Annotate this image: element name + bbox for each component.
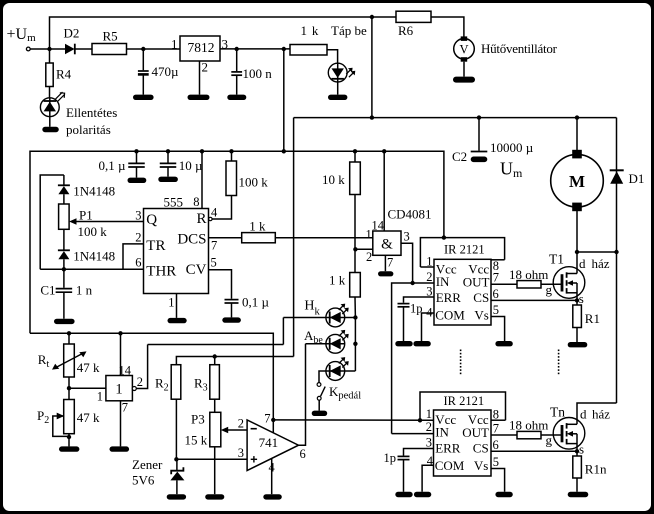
- svg-text:4: 4: [211, 206, 218, 220]
- capacitor 470u: [138, 49, 179, 95]
- ground zener: [167, 494, 186, 499]
- svg-text:2: 2: [366, 250, 372, 264]
- wire motor top: [576, 118, 578, 150]
- svg-text:CS: CS: [473, 290, 489, 305]
- diode D2: [64, 26, 80, 55]
- junction rail 0.1u: [134, 149, 138, 153]
- wire top rail +Um: [50, 17, 372, 49]
- svg-text:P1: P1: [79, 208, 93, 223]
- capacitor 0.1u CV: [225, 295, 270, 318]
- junction C2 node: [477, 115, 481, 119]
- svg-text:3: 3: [426, 285, 432, 299]
- svg-text:R1n: R1n: [585, 462, 607, 477]
- capacitor C2 10000u: [452, 118, 534, 180]
- svg-text:15 k: 15 k: [185, 433, 208, 448]
- ground Vs stage2: [495, 492, 512, 497]
- fan motor Hutoventillator: [454, 36, 558, 61]
- dotted continuation right: [558, 350, 560, 375]
- svg-text:3: 3: [404, 230, 410, 244]
- svg-text:7: 7: [211, 239, 217, 253]
- svg-text:4: 4: [427, 454, 434, 468]
- wire Vcc feed down to 555 rail: [283, 49, 285, 151]
- svg-text:s: s: [579, 291, 584, 306]
- pin 6 741 output: [299, 344, 306, 461]
- capacitor 1p stage2: [384, 451, 410, 492]
- transistor Tn mosfet: [550, 405, 610, 457]
- svg-text:THR: THR: [146, 264, 176, 280]
- svg-text:C1: C1: [40, 283, 55, 298]
- junction one-gate pin14 top: [118, 331, 122, 335]
- svg-text:IR 2121: IR 2121: [444, 243, 485, 257]
- svg-text:g: g: [546, 433, 553, 448]
- svg-text:1: 1: [426, 255, 432, 269]
- pin 7 555 DCS: [209, 238, 242, 253]
- svg-text:Tn: Tn: [550, 405, 565, 420]
- svg-text:47 k: 47 k: [77, 360, 100, 375]
- junction Vcc bus 2: [418, 418, 422, 422]
- wire node to inverter pin1: [69, 387, 106, 389]
- wire P3 wiper to 741 minus: [221, 427, 247, 433]
- diode D1: [610, 170, 645, 186]
- svg-text:DCS: DCS: [177, 232, 206, 248]
- wire enclosure bottom rail to 741 pin7: [30, 333, 273, 420]
- wire input to junction: [30, 48, 47, 50]
- ground P3: [205, 494, 224, 499]
- svg-text:M: M: [569, 172, 585, 191]
- wire vertical from top rail: [371, 17, 373, 118]
- wire 555 Vcc rail: [30, 151, 444, 333]
- svg-text:6: 6: [135, 256, 141, 270]
- junction top rail to motor rail: [370, 15, 374, 19]
- ground inverter: [110, 446, 130, 451]
- pin 4 555 reset: [209, 196, 232, 221]
- svg-text:6: 6: [493, 287, 499, 301]
- pin 4 IR2121-2: [422, 454, 434, 492]
- svg-text:CS: CS: [473, 441, 489, 456]
- wire R6 to fan: [431, 17, 464, 38]
- timer U1 555: [144, 195, 209, 294]
- pin 5 IR2121-1 Vs: [491, 303, 505, 341]
- ground R1: [568, 342, 588, 347]
- junction Vcc feed on rail: [282, 149, 286, 153]
- svg-text:R6: R6: [398, 23, 414, 38]
- svg-text:Q: Q: [146, 212, 157, 228]
- junction source Tn: [575, 449, 579, 453]
- junction rail 100k: [229, 149, 233, 153]
- pin 6 IR2121-1 CS: [491, 287, 577, 301]
- svg-text:4: 4: [426, 306, 433, 320]
- svg-text:Vs: Vs: [474, 458, 488, 473]
- ground CV cap: [222, 317, 241, 322]
- wire 1k to LED anodes: [354, 297, 356, 318]
- svg-text:R: R: [196, 211, 206, 227]
- svg-text:4: 4: [269, 461, 276, 475]
- LED K pedal: [326, 357, 349, 380]
- svg-text:0,1 µ: 0,1 µ: [99, 158, 127, 173]
- svg-text:7: 7: [122, 401, 128, 415]
- resistor 18 ohm stage2: [509, 418, 548, 439]
- svg-text:&: &: [381, 237, 393, 253]
- wire top rail to R6: [372, 16, 396, 18]
- junction P2 wiper bottom: [67, 435, 71, 439]
- resistor R1n: [573, 456, 607, 478]
- potentiometer P3 15k: [185, 412, 221, 448]
- junction Vcc bus 1: [442, 235, 446, 239]
- junction rail 10k: [353, 149, 357, 153]
- ground 1p stage1: [395, 341, 412, 346]
- wire drain link to D1 rail: [577, 251, 617, 253]
- svg-text:1 k: 1 k: [329, 273, 346, 288]
- resistor R2: [155, 365, 181, 400]
- pin 2 555: [123, 231, 144, 270]
- svg-text:7812: 7812: [188, 40, 215, 55]
- ground CD4081: [378, 271, 393, 276]
- ground COM stage2: [414, 492, 431, 497]
- svg-text:100 k: 100 k: [78, 224, 108, 239]
- ground 741: [263, 494, 282, 499]
- svg-text:Vs: Vs: [474, 307, 488, 322]
- ground Tap-be LED: [328, 95, 347, 100]
- junction rail pin8: [200, 149, 204, 153]
- junction rail CD4081 pin14: [382, 149, 386, 153]
- svg-text:CD4081: CD4081: [388, 207, 432, 222]
- wire K LED anode: [345, 370, 356, 372]
- wire R2 R3 supply rail: [176, 357, 293, 365]
- svg-text:555: 555: [164, 195, 184, 210]
- svg-text:OUT: OUT: [462, 425, 489, 440]
- LED Tap be: [328, 63, 355, 82]
- junction 741 pin7 Vcc: [271, 418, 275, 422]
- ground 10u rail: [158, 177, 178, 182]
- svg-text:1: 1: [426, 407, 432, 421]
- pin 3 IR2121-2: [404, 436, 434, 456]
- svg-text:ERR: ERR: [435, 441, 461, 456]
- svg-text:2: 2: [426, 420, 432, 434]
- wire fan to ground: [463, 62, 465, 77]
- resistor R5: [92, 29, 127, 55]
- resistor R3: [194, 357, 219, 400]
- wire Hk drive: [282, 318, 284, 345]
- resistor 1k Tap-be: [290, 23, 327, 55]
- svg-text:8: 8: [493, 408, 499, 422]
- svg-text:IN: IN: [435, 425, 449, 440]
- svg-text:1p: 1p: [384, 451, 397, 465]
- junction 470u node: [141, 47, 145, 51]
- svg-text:14: 14: [372, 218, 385, 232]
- pin 2 CD4081: [355, 249, 372, 264]
- pin 14 inverter: [119, 333, 132, 377]
- svg-text:14: 14: [119, 363, 132, 377]
- driver U7 IR 2121: [434, 394, 492, 476]
- resistor 10k: [322, 151, 360, 194]
- svg-text:CV: CV: [186, 262, 207, 278]
- junction C1 node: [62, 267, 66, 271]
- pin 4 741: [269, 458, 276, 494]
- diode D3 1N4148 upper: [58, 175, 115, 204]
- pin 4 IR2121-1: [422, 306, 435, 342]
- svg-text:Zener: Zener: [132, 457, 163, 472]
- svg-text:1N4148: 1N4148: [73, 248, 115, 263]
- svg-text:2: 2: [135, 231, 141, 245]
- driver U6 IR 2121: [434, 243, 491, 326]
- pin 8 IR2121-1: [491, 259, 505, 273]
- pin 2 IR2121-1: [413, 270, 434, 284]
- svg-text:470µ: 470µ: [152, 64, 180, 79]
- svg-text:10 µ: 10 µ: [179, 158, 203, 173]
- zener diode 5V6: [132, 457, 184, 494]
- wire K cathode to switch: [319, 371, 326, 383]
- wire LED to ground: [49, 117, 51, 127]
- LED A-be: [304, 328, 349, 353]
- wire Hk anode: [345, 317, 356, 319]
- wire P3 bottom: [214, 447, 216, 494]
- svg-text:7: 7: [493, 422, 499, 436]
- svg-text:P3: P3: [191, 412, 205, 427]
- wire A-be cathode: [306, 343, 326, 345]
- resistor R6: [396, 11, 431, 38]
- wire gate T1: [541, 283, 562, 285]
- wire motor bottom to drain node: [576, 211, 578, 252]
- svg-text:100 n: 100 n: [243, 66, 273, 81]
- svg-text:6: 6: [300, 447, 306, 461]
- svg-text:1: 1: [115, 382, 123, 398]
- svg-text:7: 7: [264, 412, 270, 426]
- wire DCS to gate pin1: [275, 237, 373, 239]
- svg-text:Ellentétes: Ellentétes: [66, 105, 117, 120]
- svg-text:ERR: ERR: [436, 290, 462, 305]
- wire 10k to 1k: [354, 195, 356, 273]
- pin 7 IR2121-1 OUT: [491, 271, 517, 285]
- svg-text:6: 6: [493, 438, 499, 452]
- svg-text:5: 5: [211, 256, 217, 270]
- pin 3 IR2121-1: [404, 285, 435, 303]
- ground P2: [59, 446, 79, 451]
- svg-text:Táp be: Táp be: [331, 23, 367, 38]
- wire R5 to 7812: [127, 48, 181, 50]
- svg-text:d: d: [580, 407, 587, 422]
- svg-text:1p: 1p: [410, 302, 423, 316]
- junction D1 rail T1: [614, 250, 618, 254]
- svg-text:18 ohm: 18 ohm: [509, 267, 548, 282]
- wire 1k to LED: [327, 50, 338, 63]
- ground 7812: [188, 95, 210, 100]
- wire R2 bottom to plus node: [175, 399, 177, 459]
- svg-text:2: 2: [238, 417, 244, 431]
- potentiometer P2 47k: [37, 400, 100, 437]
- pin 8 IR2121-2: [491, 408, 506, 422]
- svg-text:0,1 µ: 0,1 µ: [242, 295, 270, 310]
- thermistor Rt 47k: [38, 333, 100, 377]
- junction source T1: [575, 298, 579, 302]
- capacitor 100n: [231, 49, 272, 95]
- wire R1n to ground: [576, 478, 578, 492]
- junction Rt top: [67, 331, 71, 335]
- svg-text:ház: ház: [592, 407, 610, 422]
- pin 1 IR2121-1: [420, 255, 434, 269]
- svg-text:T1: T1: [549, 252, 564, 267]
- transistor T1 mosfet: [549, 252, 610, 307]
- wire motor rail: [294, 117, 617, 119]
- svg-text:R5: R5: [103, 29, 118, 44]
- junction R3 top: [213, 354, 217, 358]
- wire IN node branch: [392, 283, 413, 434]
- wire motor-rail left leg down: [293, 118, 295, 357]
- svg-text:100 k: 100 k: [239, 175, 269, 190]
- pin 7 CD4081: [385, 255, 393, 271]
- svg-text:1: 1: [366, 227, 372, 241]
- ground R1n: [568, 492, 589, 497]
- regulator U2 7812: [171, 36, 228, 61]
- diode D4 1N4148 lower: [58, 229, 115, 269]
- wire inverter out to Hk: [148, 344, 284, 346]
- capacitor C1 1n: [40, 269, 92, 318]
- wire P2 bottom: [68, 434, 70, 447]
- svg-text:3: 3: [426, 436, 432, 450]
- svg-text:d: d: [579, 256, 586, 271]
- resistor R4: [46, 63, 72, 87]
- pin 2 inverter bubble: [132, 375, 143, 391]
- wire pin 8 555: [193, 151, 202, 209]
- ground 555 pin1: [168, 318, 187, 323]
- svg-text:1N4148: 1N4148: [73, 183, 115, 198]
- junction motor top node: [575, 115, 579, 119]
- gate U3 CD4081: [373, 207, 432, 256]
- pin 1 555: [168, 294, 176, 318]
- svg-text:5V6: 5V6: [132, 473, 155, 488]
- svg-text:g: g: [546, 282, 553, 297]
- svg-text:V: V: [459, 43, 468, 57]
- svg-text:ház: ház: [592, 256, 610, 271]
- svg-text:8: 8: [193, 195, 199, 209]
- ground 100n: [227, 95, 246, 100]
- wire plus node to 741: [176, 458, 247, 460]
- svg-text:2: 2: [426, 270, 432, 284]
- pin 14 CD4081: [372, 151, 385, 232]
- wire Tn drain link: [577, 403, 617, 424]
- junction rail 10u: [166, 149, 170, 153]
- ground fan: [453, 77, 475, 83]
- junction A-be anode: [353, 342, 357, 346]
- wire LED to ground: [337, 82, 339, 95]
- svg-text:D1: D1: [629, 171, 645, 186]
- svg-text:IR 2121: IR 2121: [444, 394, 485, 408]
- svg-text:OUT: OUT: [463, 275, 490, 290]
- potentiometer P1 100k: [59, 204, 108, 239]
- ground Vs stage1: [495, 341, 512, 346]
- junction Hk anode: [353, 315, 357, 319]
- ground 0.1u rail: [128, 178, 147, 183]
- wire inverter out up: [136, 345, 147, 389]
- LED Ellentetes polaritas: [40, 92, 117, 137]
- svg-text:2: 2: [137, 375, 143, 389]
- svg-text:COM: COM: [435, 307, 465, 322]
- svg-text:R4: R4: [56, 67, 72, 82]
- pin 2 7812: [200, 60, 209, 95]
- svg-text:1: 1: [168, 296, 174, 310]
- svg-text:Hűtőventillátor: Hűtőventillátor: [481, 41, 558, 56]
- svg-text:3: 3: [135, 209, 141, 223]
- svg-text:7: 7: [493, 271, 499, 285]
- svg-text:C2: C2: [452, 149, 467, 164]
- svg-text:1 n: 1 n: [76, 283, 93, 298]
- pin 5 IR2121-2 Vs: [491, 455, 505, 492]
- wire junction to R4: [49, 49, 51, 63]
- wire junction to D2: [50, 48, 66, 50]
- wire LED anode column: [354, 318, 356, 372]
- wire Vcc bus IR2121-2: [420, 392, 506, 420]
- wire D2 to R5: [75, 48, 92, 50]
- junction IN1 node: [410, 281, 414, 285]
- junction input node: [47, 47, 51, 51]
- resistor 18 ohm stage1: [509, 267, 548, 288]
- junction Rt P2 node: [67, 386, 71, 390]
- svg-text:18 ohm: 18 ohm: [509, 418, 548, 433]
- ground C1: [54, 319, 75, 324]
- pin 3 CD4081: [401, 230, 413, 284]
- resistor 1k DCS: [242, 219, 276, 243]
- svg-text:polaritás: polaritás: [66, 122, 111, 137]
- svg-text:s: s: [579, 442, 584, 457]
- pin 7 IR2121-2 OUT: [491, 422, 517, 436]
- svg-text:IN: IN: [436, 274, 450, 289]
- inverter U4 gate 1: [106, 376, 132, 401]
- ground 470u: [133, 95, 154, 100]
- wire Hk cathode: [283, 317, 326, 319]
- dotted continuation left: [460, 350, 462, 375]
- pin 5 555 CV: [209, 256, 232, 299]
- svg-text:1 k: 1 k: [301, 23, 320, 38]
- wire gate Tn: [541, 434, 562, 436]
- svg-text:10 k: 10 k: [322, 172, 345, 187]
- pin 7 inverter: [121, 401, 129, 447]
- svg-text:TR: TR: [146, 238, 165, 254]
- wire R1 to ground: [576, 328, 578, 343]
- junction 100n node: [235, 47, 239, 51]
- wire R4 to LED: [49, 87, 51, 99]
- junction plus input node: [174, 457, 178, 461]
- svg-text:COM: COM: [435, 458, 465, 473]
- svg-text:741: 741: [259, 435, 279, 450]
- svg-text:1 k: 1 k: [249, 219, 266, 234]
- svg-text:D2: D2: [64, 26, 80, 41]
- wire threshold node: [40, 268, 143, 270]
- wire rail-left to diode chain: [40, 175, 64, 269]
- junction gate pin2 node: [353, 247, 357, 251]
- LED Hk: [304, 299, 348, 327]
- resistor R1: [573, 305, 600, 328]
- wire R3 to P3: [214, 399, 216, 412]
- wire Vcc to IR2121-2: [273, 419, 434, 421]
- svg-text:R1: R1: [585, 311, 600, 326]
- svg-text:2: 2: [202, 60, 209, 75]
- ground reverse-polarity LED: [42, 127, 59, 132]
- pin 6 IR2121-2 CS: [491, 438, 577, 452]
- capacitor 1p stage1: [398, 302, 423, 342]
- wire motor rail right down: [616, 118, 618, 403]
- motor M: [551, 150, 604, 211]
- svg-text:1: 1: [171, 37, 178, 52]
- capacitor 0.1u rail: [99, 151, 145, 177]
- svg-text:47 k: 47 k: [77, 410, 100, 425]
- op-amp U5 741: [247, 420, 298, 471]
- resistor 1k LED chain: [329, 273, 360, 298]
- resistor 100k reset: [226, 151, 268, 195]
- ground 1p stage2: [395, 492, 412, 497]
- pin 2 IR2121-2: [392, 420, 434, 434]
- ground COM stage1: [413, 341, 430, 346]
- wire 7812 out: [220, 48, 290, 50]
- ground K switch: [312, 411, 328, 416]
